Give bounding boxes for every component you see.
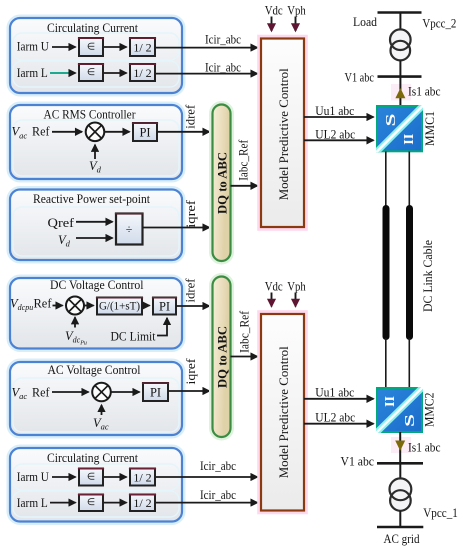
wire idref to DQ pill 2 [176, 305, 210, 307]
wire Qref to divider [76, 221, 113, 223]
block box6: Circulating Current (bottom) [8, 446, 184, 524]
svg-text:Qref: Qref [48, 216, 75, 230]
svg-text:DQ to ABC: DQ to ABC [215, 326, 230, 388]
svg-text:AC Voltage Control: AC Voltage Control [48, 362, 141, 377]
svg-text:Uu1 abc: Uu1 abc [315, 104, 354, 118]
wire Icir_abc to MPC2 (row 1) [156, 476, 258, 478]
wire to 1/2 block (row 1) [104, 46, 127, 48]
block box3: Reactive Power set-point [8, 188, 184, 263]
wire Iabc_Ref pill1 to MPC1 [231, 185, 258, 187]
svg-text:Vph: Vph [287, 280, 306, 294]
block membership E (row 2) [78, 495, 104, 512]
wire Icir_abc to MPC2 (row 2) [156, 502, 258, 504]
multiplier circle-X (DC) [66, 297, 84, 315]
svg-text:Ref: Ref [32, 386, 50, 400]
block PI (AC) [142, 383, 169, 401]
svg-text:1/ 2: 1/ 2 [133, 496, 151, 510]
wire G to PI [142, 305, 150, 307]
wire Ref to multiplier [52, 131, 82, 133]
block gain 1/2 (row 2) [129, 64, 156, 81]
svg-text:∈: ∈ [87, 67, 95, 78]
arrow Is1 abc (up) [395, 88, 405, 98]
svg-text:Icir_abc: Icir_abc [200, 488, 236, 502]
svg-text:Iarm L: Iarm L [17, 66, 48, 80]
arrow Is1 abc (down) [395, 441, 405, 451]
svg-text:1/ 2: 1/ 2 [133, 66, 151, 80]
wire multiplier to PI [111, 391, 140, 393]
svg-text:Model Predictive Control: Model Predictive Control [276, 68, 291, 200]
wire cable to MMC2 (left pole) [385, 338, 387, 388]
svg-text:G/(1+sT): G/(1+sT) [99, 300, 140, 312]
wire Uu1 abc MPC1 to MMC1 [304, 116, 374, 118]
svg-text:PI: PI [139, 125, 150, 139]
multiplier circle-X [86, 123, 105, 142]
wire Vph into MPC2 [295, 293, 297, 307]
svg-text:V1 abc: V1 abc [341, 455, 375, 469]
block MPC1: Model Predictive Control [259, 37, 306, 230]
block DQ to ABC pill 2 [211, 275, 233, 440]
block gain 1/2 (row 1) [129, 469, 156, 486]
bus AC grid [377, 526, 423, 529]
wire Vdc_pu up to multiplier [74, 317, 76, 327]
svg-text:1/ 2: 1/ 2 [133, 41, 151, 55]
svg-text:Circulating Current: Circulating Current [47, 450, 138, 465]
block PI (DC) [152, 298, 177, 315]
block G/(1+sT) [96, 298, 143, 315]
svg-text:AC grid: AC grid [384, 532, 421, 546]
wire to 1/2 block (row 2) [104, 502, 127, 504]
DC cable (left pole) [383, 209, 390, 337]
block divider [115, 214, 144, 245]
wire multiplier to PI [105, 131, 130, 133]
svg-text:Iarm U: Iarm U [17, 39, 49, 53]
wire Vph into MPC1 [295, 17, 297, 32]
bus V1 abc (bottom) [377, 462, 423, 465]
svg-text:Icir_abc: Icir_abc [205, 33, 241, 47]
svg-text:DC Link Cable: DC Link Cable [420, 240, 435, 312]
svg-text:Model Predictive Control: Model Predictive Control [276, 346, 291, 478]
block DQ to ABC pill 1 [211, 103, 233, 264]
svg-text:II: II [402, 134, 417, 145]
wire UL2 abc MPC2 to MMC2 [304, 423, 374, 425]
svg-text:Circulating Current: Circulating Current [47, 20, 138, 35]
glow behind Is1 arrow [391, 84, 411, 101]
bus Vpcc_2 (top) [378, 11, 422, 14]
wire bus V1 to transformer T1 [399, 464, 401, 479]
bus V1 abc (top) [378, 75, 422, 78]
svg-text:Iabc_Ref: Iabc_Ref [237, 310, 251, 353]
svg-text:÷: ÷ [126, 222, 133, 236]
block box2: AC RMS Controller [8, 103, 184, 181]
svg-text:∈: ∈ [87, 471, 95, 482]
block membership E (row 1) [78, 38, 104, 56]
wire bus V1 to MMC1 [399, 78, 401, 106]
svg-text:V1 abc: V1 abc [345, 70, 375, 84]
svg-text:idref: idref [183, 104, 197, 129]
svg-text:MMC1: MMC1 [422, 111, 437, 146]
wire transformer T1 to AC grid bus [399, 511, 401, 526]
svg-text:Ref: Ref [32, 125, 50, 139]
DC cable (right pole) [406, 209, 413, 337]
wire iqref to DQ pill 2 [168, 390, 210, 392]
glow behind Is1 arrow (bottom) [391, 437, 411, 453]
svg-text:Vdc: Vdc [265, 4, 283, 18]
svg-text:Is1 abc: Is1 abc [408, 85, 441, 99]
svg-text:Vpcc_1: Vpcc_1 [423, 506, 458, 520]
block MPC2: Model Predictive Control [259, 312, 306, 513]
svg-text:AC RMS Controller: AC RMS Controller [44, 106, 137, 121]
svg-text:iqref: iqref [184, 358, 198, 385]
wire to 1/2 block (row 1) [104, 476, 127, 478]
wire Iarm L (teal) to membership block [50, 72, 76, 74]
svg-text:Ref: Ref [34, 297, 53, 311]
wire idref to DQ pill 1 [157, 131, 210, 133]
svg-text:iqref: iqref [184, 199, 198, 227]
svg-text:PI: PI [159, 299, 170, 313]
svg-text:Icir_abc: Icir_abc [205, 60, 241, 74]
transformer T2 [390, 29, 411, 60]
svg-text:UL2 abc: UL2 abc [315, 128, 355, 142]
wire Vdc into MPC1 [271, 17, 273, 32]
svg-text:PI: PI [150, 385, 161, 399]
svg-text:Iarm U: Iarm U [17, 470, 49, 484]
svg-text:DQ to ABC: DQ to ABC [215, 152, 230, 214]
svg-text:II: II [383, 396, 398, 407]
svg-text:Uu1 abc: Uu1 abc [315, 386, 354, 400]
svg-text:Vdc: Vdc [265, 280, 283, 294]
svg-text:S: S [383, 114, 398, 127]
svg-text:DC Voltage Control: DC Voltage Control [50, 277, 144, 292]
block gain 1/2 (row 2) [129, 495, 156, 512]
block box5: AC Voltage Control [8, 360, 184, 437]
wire transformer T2 to bus V1 [399, 61, 401, 77]
svg-text:idref: idref [184, 278, 198, 303]
block gain 1/2 (row 1) [129, 38, 156, 56]
wire Iarm L to membership block [50, 502, 76, 504]
svg-text:S: S [402, 414, 417, 427]
wire Vdc into MPC2 [271, 293, 273, 307]
wire MMC1 to cable (left pole) [385, 152, 387, 208]
wire Ref to multiplier [53, 305, 63, 307]
svg-text:MMC2: MMC2 [422, 393, 437, 428]
wire DC Limit into PI [157, 318, 167, 336]
block PI (AC RMS) [132, 123, 158, 141]
wire Uu1 abc MPC2 to MMC2 [304, 398, 374, 400]
converter MMC2 [376, 387, 424, 434]
svg-text:UL2 abc: UL2 abc [315, 410, 355, 424]
svg-text:Reactive Power set-point: Reactive Power set-point [33, 191, 150, 206]
wire to 1/2 block (row 2) [104, 72, 127, 74]
wire Icir_abc to MPC1 (row 2) [156, 73, 258, 75]
svg-text:1/ 2: 1/ 2 [133, 471, 151, 485]
wire UL2 abc MPC1 to MMC1 [304, 139, 374, 141]
wire bus to transformer T2 [399, 14, 401, 31]
wire Icir_abc to MPC1 (row 1) [156, 47, 258, 49]
wire cable to MMC2 (right pole) [408, 338, 410, 388]
wire Iabc_Ref pill2 to MPC2 [231, 356, 258, 358]
block box4: DC Voltage Control [8, 276, 184, 351]
svg-text:Iabc_Ref: Iabc_Ref [237, 139, 251, 181]
svg-text:Load: Load [353, 15, 378, 29]
block membership E (row 2) [78, 64, 104, 81]
block membership E (row 1) [78, 469, 104, 486]
wire multiplier to G block [84, 305, 94, 307]
wire Iarm U to membership block [52, 476, 76, 478]
converter MMC1 [376, 105, 424, 153]
wire iqref to DQ pill 1 [143, 227, 210, 229]
transformer T1 [390, 478, 412, 510]
svg-text:Iarm L: Iarm L [17, 496, 48, 510]
svg-text:Icir_abc: Icir_abc [200, 459, 236, 473]
svg-text:∈: ∈ [87, 497, 95, 508]
wire Vac up to multiplier [101, 405, 103, 415]
wire Ref to multiplier [52, 391, 89, 393]
svg-text:Is1 abc: Is1 abc [408, 441, 441, 455]
wire MMC1 to cable (right pole) [408, 152, 410, 208]
multiplier circle-X (AC) [92, 383, 111, 402]
wire Vd up to multiplier [94, 145, 96, 159]
block box1: Circulating Current (top) [8, 16, 184, 95]
svg-text:Vpcc_2: Vpcc_2 [422, 16, 456, 30]
svg-text:Vph: Vph [287, 4, 306, 18]
wire MMC2 to bus V1 (bottom) [399, 432, 401, 463]
wire Iarm U to membership block [52, 46, 76, 48]
svg-text:∈: ∈ [87, 41, 95, 52]
wire Vd to divider [76, 237, 113, 239]
svg-text:DC Limit: DC Limit [111, 330, 156, 344]
